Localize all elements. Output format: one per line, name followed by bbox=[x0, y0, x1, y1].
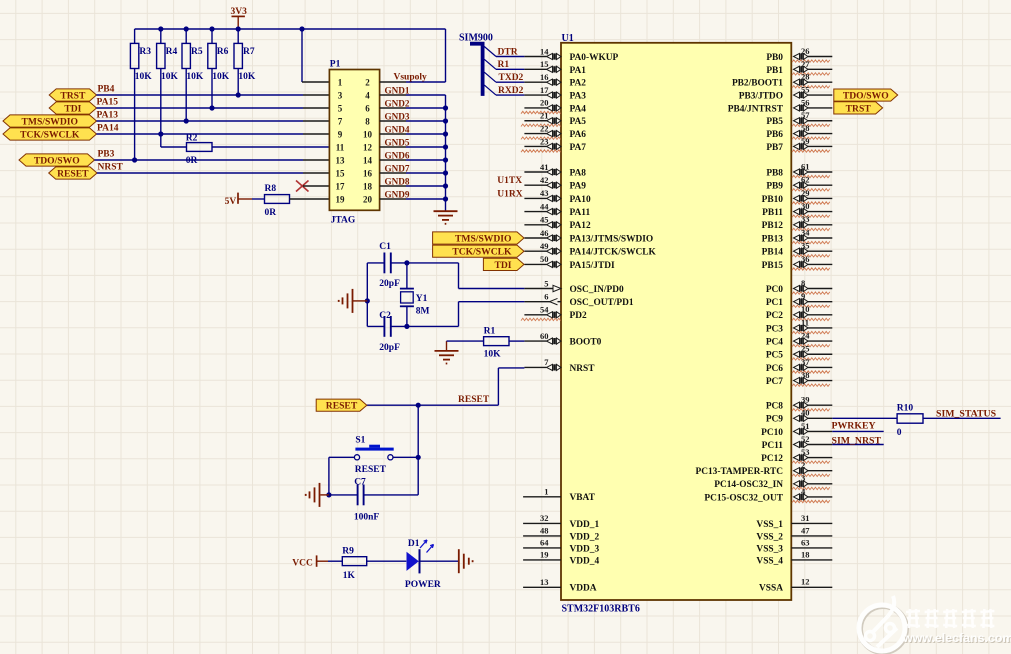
U1 pin 40 PC9 bbox=[766, 408, 832, 425]
ground symbol power LED bbox=[459, 549, 473, 573]
svg-text:9: 9 bbox=[338, 129, 343, 139]
svg-text:TDI: TDI bbox=[64, 104, 81, 115]
label JTAG bbox=[331, 216, 356, 226]
label U1TX bbox=[497, 176, 522, 186]
svg-text:16: 16 bbox=[540, 72, 549, 82]
svg-text:PC15-OSC32_OUT: PC15-OSC32_OUT bbox=[704, 493, 783, 503]
svg-text:VDDA: VDDA bbox=[570, 584, 597, 594]
svg-text:R10: R10 bbox=[897, 404, 914, 414]
svg-text:S1: S1 bbox=[355, 436, 365, 446]
U1 pin 39 PC8 bbox=[766, 395, 832, 412]
svg-text:21: 21 bbox=[540, 111, 549, 121]
svg-text:53: 53 bbox=[801, 447, 810, 457]
U1 pin 10 PC2 bbox=[766, 304, 832, 321]
U1 pin 50 PA15/JTDI bbox=[524, 254, 615, 271]
svg-text:PC8: PC8 bbox=[766, 402, 783, 412]
svg-text:15: 15 bbox=[336, 168, 346, 178]
svg-text:51: 51 bbox=[801, 421, 810, 431]
svg-text:PWRKEY: PWRKEY bbox=[832, 421, 876, 432]
svg-text:PA14: PA14 bbox=[97, 123, 119, 133]
U1 pin 36 PB15 bbox=[762, 254, 833, 271]
svg-text:VSS_4: VSS_4 bbox=[756, 556, 783, 566]
svg-text:31: 31 bbox=[801, 513, 810, 523]
junction dots resistor columns bbox=[132, 92, 241, 162]
svg-text:PC11: PC11 bbox=[762, 441, 784, 451]
svg-text:VDD_3: VDD_3 bbox=[570, 544, 600, 554]
svg-text:TMS/SWDIO: TMS/SWDIO bbox=[455, 234, 512, 245]
U1 pin 49 PA14/JTCK/SWCLK bbox=[524, 241, 656, 258]
svg-text:PC1: PC1 bbox=[766, 298, 783, 308]
svg-text:GND2: GND2 bbox=[385, 98, 410, 108]
svg-text:1: 1 bbox=[544, 487, 548, 497]
svg-text:6: 6 bbox=[544, 291, 548, 301]
svg-text:U1: U1 bbox=[562, 33, 574, 44]
label U1RX bbox=[497, 189, 522, 199]
U1 pin 9 PC1 bbox=[766, 291, 832, 308]
svg-text:PA7: PA7 bbox=[570, 143, 587, 153]
svg-text:6: 6 bbox=[365, 103, 370, 113]
svg-text:GND5: GND5 bbox=[385, 137, 410, 147]
U1 pin 7 NRST bbox=[524, 357, 595, 374]
svg-text:RXD2: RXD2 bbox=[498, 86, 524, 96]
svg-text:42: 42 bbox=[540, 175, 549, 185]
svg-text:R6: R6 bbox=[217, 47, 229, 57]
junction dot C1-Y1 bbox=[404, 260, 409, 265]
svg-text:48: 48 bbox=[540, 526, 549, 536]
wire 3V3 to JTAG pin1 bbox=[302, 29, 329, 82]
U1 pin 27 PB1 bbox=[766, 59, 832, 76]
svg-text:PA13: PA13 bbox=[97, 110, 119, 120]
svg-text:TDI: TDI bbox=[494, 260, 511, 271]
svg-text:39: 39 bbox=[801, 395, 810, 405]
label NRST bbox=[98, 162, 124, 172]
U1 pin 63 VSS_3 bbox=[756, 537, 832, 554]
svg-text:GND9: GND9 bbox=[385, 189, 410, 199]
wire Vsupoly bbox=[380, 29, 446, 82]
U1 pin 17 PA3 bbox=[524, 85, 586, 102]
svg-text:PA4: PA4 bbox=[570, 104, 587, 114]
svg-text:PB11: PB11 bbox=[762, 208, 783, 218]
svg-text:PD2: PD2 bbox=[570, 311, 587, 321]
capacitor C1 bbox=[367, 242, 458, 289]
U1 pin 41 PA8 bbox=[524, 162, 586, 179]
svg-text:PB8: PB8 bbox=[766, 168, 783, 178]
svg-text:PB7: PB7 bbox=[766, 143, 783, 153]
svg-text:TRST: TRST bbox=[60, 91, 86, 102]
junction dot crystal ground bbox=[365, 298, 370, 303]
wire D1 to ground bbox=[421, 560, 459, 562]
svg-text:7: 7 bbox=[338, 116, 343, 126]
resistor R7 10K bbox=[234, 29, 256, 95]
U1 pin 30 PB11 bbox=[762, 201, 832, 218]
label SIM900 bbox=[459, 33, 493, 44]
svg-text:PB15: PB15 bbox=[762, 261, 784, 271]
svg-text:PA6: PA6 bbox=[570, 130, 587, 140]
U1 pin 59 PB7 bbox=[766, 136, 832, 153]
svg-text:VDD_4: VDD_4 bbox=[570, 556, 600, 566]
svg-text:0R: 0R bbox=[265, 208, 277, 218]
U1 pin 51 PC10 bbox=[761, 421, 832, 438]
svg-text:GND4: GND4 bbox=[385, 124, 410, 134]
svg-text:35: 35 bbox=[801, 241, 810, 251]
svg-text:5V: 5V bbox=[225, 197, 237, 207]
wire S1 left down bbox=[328, 457, 330, 495]
wire to OSC_IN bbox=[459, 263, 525, 289]
U1 pin 23 PA7 bbox=[521, 136, 586, 153]
U1 pin 19 VDD_4 bbox=[523, 550, 599, 567]
watermark elecfans logo and text bbox=[859, 596, 1011, 652]
svg-text:25: 25 bbox=[801, 344, 810, 354]
U1 pin 46 PA13/JTMS/SWDIO bbox=[524, 228, 653, 245]
svg-text:PB9: PB9 bbox=[766, 182, 783, 192]
port TMS/SWDIO bbox=[3, 115, 97, 128]
U1 pin 57 PB5 bbox=[766, 110, 832, 127]
label STM32F103RBT6 bbox=[562, 603, 640, 614]
svg-text:VDD_2: VDD_2 bbox=[570, 532, 600, 542]
svg-text:RESET: RESET bbox=[57, 169, 89, 180]
svg-text:46: 46 bbox=[540, 228, 549, 238]
connector P1 JTAG box bbox=[329, 70, 379, 211]
U1 pin 2 PC13-TAMPER-RTC bbox=[695, 460, 832, 477]
svg-text:PB0: PB0 bbox=[766, 53, 783, 63]
U1 pin 31 VSS_1 bbox=[756, 513, 832, 530]
label PWRKEY bbox=[832, 421, 876, 432]
svg-text:40: 40 bbox=[801, 408, 810, 418]
svg-text:GND1: GND1 bbox=[385, 85, 410, 95]
svg-text:POWER: POWER bbox=[405, 580, 441, 590]
wire net DTR bbox=[496, 56, 524, 58]
svg-text:R5: R5 bbox=[191, 47, 203, 57]
U1 pin 18 VSS_4 bbox=[756, 549, 832, 566]
svg-text:PB4: PB4 bbox=[98, 84, 115, 94]
svg-text:PB3: PB3 bbox=[98, 149, 115, 159]
labels GND1-GND9 bbox=[385, 85, 410, 199]
svg-text:20: 20 bbox=[363, 194, 373, 204]
svg-text:C7: C7 bbox=[354, 477, 366, 487]
wire net PB4 bbox=[97, 94, 330, 96]
U1 pin 1 VBAT bbox=[523, 487, 595, 504]
svg-text:PA9: PA9 bbox=[570, 182, 587, 192]
svg-text:PC9: PC9 bbox=[766, 415, 783, 425]
junction dot C7 ground bbox=[326, 492, 331, 497]
label PA14 bbox=[97, 123, 119, 133]
svg-text:11: 11 bbox=[336, 142, 345, 152]
U1 pin 34 PB13 bbox=[762, 227, 833, 244]
svg-text:PB3/JTDO: PB3/JTDO bbox=[739, 91, 783, 101]
U1 pin 4 PC15-OSC32_OUT bbox=[704, 486, 832, 503]
crystal Y1 8M bbox=[400, 263, 430, 327]
svg-text:22: 22 bbox=[540, 123, 549, 133]
svg-text:17: 17 bbox=[336, 181, 346, 191]
port TCK/SWCLK (mid) bbox=[433, 245, 524, 258]
svg-text:R4: R4 bbox=[166, 47, 178, 57]
port RESET (mid) bbox=[316, 399, 367, 412]
svg-text:2: 2 bbox=[801, 460, 805, 470]
junction dots GND bus bbox=[443, 105, 448, 201]
U1 pin 47 VSS_2 bbox=[756, 525, 832, 542]
svg-text:www.elecfans.com: www.elecfans.com bbox=[902, 631, 1011, 645]
resistor R1 10K bbox=[447, 327, 525, 360]
svg-text:RESET: RESET bbox=[355, 465, 387, 475]
svg-text:PA2: PA2 bbox=[570, 79, 587, 89]
wire net PA15 bbox=[97, 107, 330, 109]
svg-text:12: 12 bbox=[363, 142, 373, 152]
wire net PB3 bbox=[95, 159, 330, 161]
svg-text:PB1: PB1 bbox=[766, 66, 783, 76]
U1 pin 53 PC12 bbox=[761, 447, 832, 464]
svg-text:10K: 10K bbox=[186, 72, 204, 82]
svg-text:SIM_STATUS: SIM_STATUS bbox=[936, 409, 997, 420]
svg-text:VCC: VCC bbox=[292, 558, 313, 568]
U1 pin 64 VDD_3 bbox=[523, 538, 599, 555]
svg-text:19: 19 bbox=[540, 550, 549, 560]
label SIM_NRST bbox=[832, 435, 882, 446]
wire net PA13 bbox=[97, 120, 330, 122]
svg-text:16: 16 bbox=[363, 168, 373, 178]
svg-text:59: 59 bbox=[801, 136, 810, 146]
svg-text:PC7: PC7 bbox=[766, 377, 783, 387]
port TDI bbox=[49, 102, 96, 115]
svg-text:20: 20 bbox=[540, 98, 549, 108]
svg-text:50: 50 bbox=[540, 254, 549, 264]
svg-text:0R: 0R bbox=[186, 156, 198, 166]
U1 pin 5 OSC_IN/PD0 bbox=[524, 278, 624, 295]
capacitor C7 100nF bbox=[329, 477, 418, 522]
U1 pin 32 VDD_1 bbox=[523, 513, 599, 530]
svg-text:54: 54 bbox=[540, 305, 549, 315]
svg-text:55: 55 bbox=[801, 84, 810, 94]
U1 pin 13 VDDA bbox=[523, 577, 597, 594]
svg-text:PB4/JNTRST: PB4/JNTRST bbox=[728, 104, 784, 114]
svg-text:30: 30 bbox=[801, 201, 810, 211]
wire net RXD2 bbox=[496, 94, 524, 96]
svg-text:C2: C2 bbox=[379, 311, 391, 321]
port TRST (right) bbox=[834, 102, 883, 115]
label P1 designator bbox=[330, 60, 341, 70]
svg-text:10: 10 bbox=[801, 304, 810, 314]
svg-text:PC5: PC5 bbox=[766, 351, 783, 361]
svg-text:OSC_IN/PD0: OSC_IN/PD0 bbox=[570, 285, 624, 295]
U1 pin 58 PB6 bbox=[766, 123, 832, 140]
svg-text:61: 61 bbox=[801, 161, 810, 171]
svg-text:RESET: RESET bbox=[326, 401, 358, 412]
svg-text:PA8: PA8 bbox=[570, 168, 587, 178]
svg-text:PC13-TAMPER-RTC: PC13-TAMPER-RTC bbox=[695, 467, 783, 477]
svg-text:1: 1 bbox=[338, 77, 343, 87]
junction dot C2-Y1 bbox=[404, 324, 409, 329]
resistor R3 10K bbox=[130, 29, 152, 160]
wire PC9 to R10 bbox=[832, 417, 897, 419]
svg-text:VBAT: VBAT bbox=[570, 493, 596, 503]
svg-text:PC3: PC3 bbox=[766, 324, 783, 334]
U1 pin 25 PC5 bbox=[766, 344, 832, 361]
wire JTAG pin17 stub bbox=[303, 185, 329, 187]
svg-text:PC10: PC10 bbox=[761, 428, 783, 438]
svg-text:2: 2 bbox=[365, 77, 370, 87]
svg-text:10K: 10K bbox=[212, 72, 230, 82]
svg-text:PC12: PC12 bbox=[761, 454, 783, 464]
svg-text:R8: R8 bbox=[265, 184, 277, 194]
svg-text:R2: R2 bbox=[186, 133, 198, 143]
wire GND bus JTAG bbox=[380, 95, 446, 211]
wire net TXD2 bbox=[496, 81, 524, 83]
svg-text:TRST: TRST bbox=[846, 103, 872, 114]
IC U1 STM32F103RBT6 body bbox=[561, 43, 791, 600]
svg-text:14: 14 bbox=[363, 155, 373, 165]
svg-text:PA3: PA3 bbox=[570, 91, 587, 101]
U1 pin 11 PC3 bbox=[766, 317, 832, 334]
U1 pin 24 PC4 bbox=[766, 331, 832, 348]
svg-text:TCK/SWCLK: TCK/SWCLK bbox=[452, 247, 512, 258]
bus entries SIM900 bbox=[484, 47, 496, 96]
svg-text:63: 63 bbox=[801, 537, 810, 547]
junction dot S1 right bbox=[416, 455, 421, 460]
svg-text:5: 5 bbox=[544, 278, 548, 288]
wire net R1 bbox=[496, 68, 524, 70]
svg-text:34: 34 bbox=[801, 227, 810, 237]
svg-text:13: 13 bbox=[336, 155, 346, 165]
svg-text:PB13: PB13 bbox=[762, 234, 784, 244]
LED D1 POWER bbox=[405, 539, 441, 590]
svg-text:10K: 10K bbox=[161, 72, 179, 82]
wire 3V3 rail bbox=[135, 28, 446, 30]
svg-text:32: 32 bbox=[540, 513, 549, 523]
power port 3V3 bbox=[231, 7, 248, 29]
svg-text:19: 19 bbox=[336, 194, 346, 204]
port TDO/SWO bbox=[19, 154, 95, 167]
svg-text:STM32F103RBT6: STM32F103RBT6 bbox=[562, 603, 640, 614]
label RXD2 bbox=[498, 86, 524, 96]
svg-text:NRST: NRST bbox=[570, 364, 596, 374]
svg-text:9: 9 bbox=[801, 291, 805, 301]
svg-text:PC4: PC4 bbox=[766, 338, 783, 348]
U1 pin 37 PC6 bbox=[766, 357, 832, 374]
svg-text:PA5: PA5 bbox=[570, 117, 587, 127]
U1 pin 16 PA2 bbox=[524, 72, 586, 89]
svg-text:PA0-WKUP: PA0-WKUP bbox=[570, 53, 619, 63]
svg-text:TDO/SWO: TDO/SWO bbox=[843, 91, 889, 102]
svg-text:PC6: PC6 bbox=[766, 364, 783, 374]
wire net PA14 bbox=[97, 133, 330, 135]
svg-text:4: 4 bbox=[365, 90, 370, 100]
U1 pin 60 BOOT0 bbox=[524, 331, 601, 348]
svg-text:PC2: PC2 bbox=[766, 311, 783, 321]
ground symbol R1 bbox=[435, 341, 459, 363]
svg-text:52: 52 bbox=[801, 434, 810, 444]
junction dot reset branch bbox=[416, 403, 421, 408]
resistor R10 0 bbox=[897, 404, 1001, 438]
U1 pin 15 PA1 bbox=[524, 59, 586, 76]
svg-text:8: 8 bbox=[365, 116, 370, 126]
svg-text:PB5: PB5 bbox=[766, 117, 783, 127]
resistor R2 0R bbox=[161, 133, 330, 165]
svg-text:56: 56 bbox=[801, 97, 810, 107]
svg-text:VSS_3: VSS_3 bbox=[756, 544, 783, 554]
resistor R6 10K bbox=[208, 29, 230, 108]
svg-text:PC14-OSC32_IN: PC14-OSC32_IN bbox=[714, 480, 783, 490]
label PB4 bbox=[98, 84, 115, 94]
svg-text:VDD_1: VDD_1 bbox=[570, 520, 600, 530]
U1 pin 48 VDD_2 bbox=[523, 526, 599, 543]
svg-text:PA15/JTDI: PA15/JTDI bbox=[570, 261, 615, 271]
svg-text:PB10: PB10 bbox=[762, 195, 784, 205]
svg-text:47: 47 bbox=[801, 525, 810, 535]
ground symbol C7 bbox=[306, 483, 329, 507]
svg-text:27: 27 bbox=[801, 59, 810, 69]
svg-text:8: 8 bbox=[801, 278, 805, 288]
U1 pin 38 PC7 bbox=[766, 370, 832, 387]
svg-text:20pF: 20pF bbox=[379, 343, 400, 353]
U1 pin 8 PC0 bbox=[766, 278, 832, 295]
label PB3 bbox=[98, 149, 115, 159]
U1 pin 44 PA11 bbox=[524, 201, 590, 218]
svg-text:49: 49 bbox=[540, 241, 549, 251]
svg-text:PA12: PA12 bbox=[570, 221, 591, 231]
svg-text:58: 58 bbox=[801, 123, 810, 133]
no-ERC marker (red X) bbox=[296, 181, 309, 192]
label U1 designator bbox=[562, 33, 574, 44]
svg-text:10K: 10K bbox=[484, 349, 502, 359]
U1 pin 52 PC11 bbox=[762, 434, 833, 451]
label PA15 bbox=[97, 97, 119, 107]
port TCK/SWCLK bbox=[3, 128, 97, 141]
U1 pin 3 PC14-OSC32_IN bbox=[714, 473, 832, 490]
U1 pin 26 PB0 bbox=[766, 46, 832, 63]
svg-text:64: 64 bbox=[540, 538, 549, 548]
label DTR bbox=[498, 47, 518, 57]
svg-text:R9: R9 bbox=[342, 547, 354, 557]
svg-text:SIM_NRST: SIM_NRST bbox=[832, 435, 882, 446]
svg-text:PA1: PA1 bbox=[570, 66, 587, 76]
svg-text:U1RX: U1RX bbox=[497, 189, 522, 199]
svg-text:PA13/JTMS/SWDIO: PA13/JTMS/SWDIO bbox=[570, 234, 654, 244]
U1 pin 21 PA5 bbox=[521, 111, 586, 128]
svg-text:JTAG: JTAG bbox=[331, 216, 356, 226]
U1 pin 56 PB4/JNTRST bbox=[728, 97, 833, 114]
svg-text:Vsupoly: Vsupoly bbox=[394, 73, 428, 83]
U1 pin 43 PA10 bbox=[524, 188, 591, 205]
svg-text:GND3: GND3 bbox=[385, 111, 410, 121]
svg-text:36: 36 bbox=[801, 254, 810, 264]
svg-text:38: 38 bbox=[801, 370, 810, 380]
label RESET net bbox=[458, 395, 490, 405]
bus SIM900 bbox=[470, 44, 483, 96]
switch S1 RESET bbox=[329, 436, 418, 475]
svg-text:R7: R7 bbox=[243, 47, 255, 57]
power port 5V bbox=[225, 193, 252, 208]
label PA13 bbox=[97, 110, 119, 120]
svg-text:62: 62 bbox=[801, 175, 810, 185]
power port VCC bbox=[292, 555, 328, 568]
label TXD2 bbox=[499, 73, 524, 83]
svg-text:10: 10 bbox=[363, 129, 373, 139]
svg-text:GND8: GND8 bbox=[385, 176, 410, 186]
wire to OSC_OUT bbox=[459, 302, 525, 327]
svg-text:43: 43 bbox=[540, 188, 549, 198]
port TDI (mid) bbox=[483, 258, 524, 271]
svg-text:11: 11 bbox=[801, 317, 809, 327]
svg-text:Y1: Y1 bbox=[416, 294, 428, 304]
svg-text:29: 29 bbox=[801, 188, 810, 198]
svg-text:VSS_2: VSS_2 bbox=[756, 532, 783, 542]
U1 pin 6 OSC_OUT/PD1 bbox=[524, 291, 633, 308]
svg-text:100nF: 100nF bbox=[354, 513, 380, 523]
junction dots on 3V3 rail bbox=[158, 26, 304, 31]
svg-text:20pF: 20pF bbox=[379, 279, 400, 289]
port RESET (left) bbox=[49, 167, 97, 180]
svg-text:1K: 1K bbox=[343, 571, 356, 581]
svg-text:C1: C1 bbox=[379, 242, 391, 252]
